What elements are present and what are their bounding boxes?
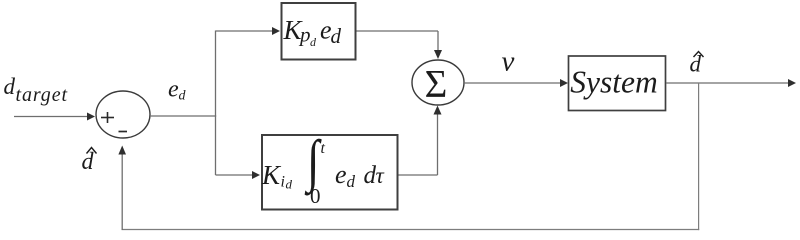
svg-text:System: System [570,65,657,100]
svg-text:Σ: Σ [425,63,448,106]
svg-text:d: d [82,149,95,175]
node label d-hat output [690,52,704,77]
wire input to summing junction [14,116,89,118]
wire node to integral block [216,174,255,176]
svg-text:e: e [335,160,347,189]
svg-text:t: t [321,140,326,157]
summing junction S1 (error comparator) [96,91,150,138]
svg-text:K: K [261,160,282,190]
node label e_d [168,76,187,103]
svg-text:p: p [298,23,311,47]
integral block Kid*integral [262,135,398,210]
svg-text:target: target [16,84,68,106]
svg-text:d: d [286,177,293,192]
svg-text:d: d [331,24,342,48]
wire proportional block to sigma [357,31,439,51]
arrowhead into sigma top [434,50,442,59]
output arrowhead [788,79,796,87]
proportional block Kpd*ed [282,3,356,60]
system block [569,56,666,111]
arrowhead into proportional block [272,27,280,35]
svg-text:d: d [347,172,356,191]
svg-text:ν: ν [502,46,515,78]
arrowhead into summing junction bottom [118,146,126,155]
wire integral block to sigma [399,112,438,175]
svg-text:i: i [281,174,285,191]
arrowhead into system block [560,79,568,87]
wire system block to output [666,82,789,84]
svg-text:d: d [179,89,187,104]
svg-text:e: e [168,76,179,102]
arrowhead into integral block [252,171,260,179]
label Kpd ed [283,15,342,49]
node label d-hat feedback [82,148,97,176]
wire sigma to system block [464,82,562,84]
wire node to proportional block [216,30,275,32]
arrowhead into summing junction [87,113,95,121]
svg-text:τ: τ [376,163,385,188]
feedback vertical wire to summing junction [121,154,123,230]
label Kid integral 0 t ed dtau [261,130,385,208]
wire summing junction to node [150,115,216,117]
arrowhead into sigma bottom [434,106,442,115]
node branch vertical wire [215,31,217,176]
minus sign [119,131,128,133]
plus sign [101,112,114,123]
svg-text:d: d [4,74,16,99]
feedback tap vertical wire [698,83,700,230]
node label d_target [4,74,68,106]
summing block sigma [412,60,464,105]
svg-text:d: d [310,35,317,49]
svg-text:0: 0 [310,184,321,208]
feedback bottom horizontal wire [122,229,700,231]
